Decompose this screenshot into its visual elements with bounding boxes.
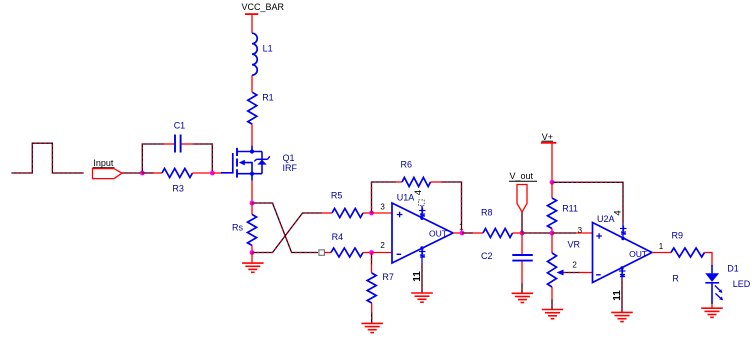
wire V+ down [551, 143, 553, 183]
resistor R11 [548, 198, 557, 228]
wire feedback left leg [372, 182, 397, 213]
wire R7 bottom dark [371, 312, 373, 323]
svg-text:1: 1 [459, 223, 464, 232]
svg-text:R8: R8 [481, 207, 493, 217]
wire red stub R5 left [322, 212, 332, 214]
ground below VR [542, 309, 563, 311]
wire red stub R4 left [325, 252, 332, 254]
svg-text:D1: D1 [727, 263, 739, 273]
wire V+ to U2A pin4 [552, 182, 623, 224]
op-amp U2A minus input marker [596, 274, 601, 276]
resistor R1 [248, 92, 257, 124]
resistor R7 [367, 273, 376, 303]
svg-text:C1: C1 [174, 120, 186, 130]
wire red stub R8 left [473, 232, 483, 234]
wire pin3 stub U2A dark [552, 232, 576, 234]
square terminal on R4 input [319, 250, 325, 256]
wire red stub R3 right [193, 172, 213, 174]
input pulse stimulus waveform [11, 143, 83, 173]
node junction pin2 U1A / R7 [369, 250, 374, 255]
wire red stub C1 left [164, 143, 174, 145]
wire feedback right leg [441, 182, 462, 225]
wire pin3 stub U2A red [576, 232, 593, 234]
svg-text:4: 4 [613, 210, 624, 215]
transistor Q1 drain lead [237, 151, 262, 153]
wire red stub R8 right [513, 232, 523, 234]
wire R7 bottom red [371, 303, 373, 312]
probe V_out symbol [517, 185, 527, 213]
wire output node dark [462, 232, 473, 234]
svg-text:R5: R5 [331, 191, 343, 201]
node junction R11 bottom / VR top [550, 231, 555, 236]
wire pin 3 stub U1A [372, 212, 393, 214]
node junction pin3 U1A [369, 211, 374, 216]
power pin stub U2A pin11 [620, 266, 623, 269]
power pin stub U1A pin4 [421, 206, 423, 219]
svg-text:V_out: V_out [510, 171, 534, 181]
wire C2 bottom dark [521, 283, 523, 293]
wire Rs bottom to ground [251, 253, 253, 264]
wire cross upper (source node to R4 input square) [252, 203, 318, 253]
svg-text:11: 11 [612, 290, 623, 301]
op-amp U2A triangle [593, 223, 653, 283]
diode D1 cathode lead [711, 283, 713, 304]
svg-text:LED: LED [733, 279, 751, 289]
transistor Q1 body arrow [239, 160, 245, 166]
op-amp U1A plus input marker [397, 214, 403, 216]
wire D1 to ground [711, 304, 713, 308]
svg-text:3: 3 [578, 226, 583, 235]
resistor R4 [331, 248, 363, 257]
svg-text:OUT: OUT [429, 229, 447, 239]
transistor Q1 body diode [261, 152, 263, 174]
diode D1 LED anode lead [711, 265, 713, 273]
resistor Rs [248, 214, 257, 245]
ground below Rs [242, 262, 264, 264]
svg-text:VCC_BAR: VCC_BAR [242, 2, 285, 12]
svg-text:4: 4 [413, 190, 424, 195]
svg-text:IRF: IRF [283, 163, 298, 173]
node junction V+ / R11 [550, 180, 555, 185]
diode D1 LED emission arrows [715, 286, 722, 293]
wire red stub C1 right [181, 143, 193, 145]
svg-text:R3: R3 [172, 184, 184, 194]
wire R3 left dark [142, 172, 154, 174]
svg-text:V+: V+ [542, 132, 553, 142]
svg-text:1: 1 [659, 242, 664, 251]
wire node to VR node [522, 232, 552, 234]
wire Input to node [122, 172, 142, 174]
node junction Rs bottom [250, 250, 255, 255]
wire C2 bottom red [521, 262, 523, 284]
svg-text:C2: C2 [481, 251, 493, 261]
op-amp U2A plus input marker [596, 235, 602, 237]
wire red stub R6 right [431, 181, 442, 183]
svg-text:OUT: OUT [629, 249, 647, 259]
resistor R5 [332, 209, 363, 218]
wire red stub R3 left [154, 172, 162, 174]
node junction Q1 source / Rs top [250, 201, 255, 206]
svg-text:R7: R7 [382, 272, 394, 282]
wire red stub VR top [551, 233, 553, 253]
svg-text:R1: R1 [262, 92, 274, 102]
wire R7 top red [371, 265, 373, 274]
svg-text:Input: Input [93, 158, 114, 168]
wire U1A output to node [453, 232, 462, 234]
wire U2A output red [652, 252, 671, 254]
svg-text:L1: L1 [263, 43, 273, 53]
wire pin 2 stub U1A [372, 252, 393, 254]
svg-text:R11: R11 [562, 203, 578, 213]
svg-text:R: R [672, 273, 679, 283]
svg-text:2: 2 [572, 261, 577, 270]
svg-text:11: 11 [412, 271, 423, 282]
ground below U2A pin 11 [611, 311, 633, 313]
wire R1 to Q1 drain [251, 124, 253, 146]
transistor Q1 gate lead [221, 153, 233, 173]
port Input symbol [93, 169, 123, 179]
wire R9 to D1 [705, 253, 713, 267]
transistor Q1 channel segments [236, 148, 238, 156]
wire VR wiper dark [564, 272, 581, 274]
node junction at R3 right / gate [210, 171, 215, 176]
wire C1 branch left/top [142, 144, 164, 173]
ground below D1 [701, 307, 723, 309]
node junction U1A output [460, 231, 465, 236]
wire red stub R11 top [551, 182, 553, 198]
resistor R3 [162, 169, 192, 178]
svg-text:R9: R9 [672, 230, 684, 240]
wire red stub Rs top [251, 203, 253, 214]
wire red gate stub [212, 172, 221, 174]
power pin stub U2A pin4 [622, 224, 624, 239]
wire red into output node [461, 225, 463, 233]
svg-text:Rs: Rs [232, 222, 243, 232]
ground below U1A pin 11 [411, 292, 433, 294]
svg-text:VR: VR [568, 239, 581, 249]
wire red stub Rs bottom [251, 245, 253, 252]
wire U1A pin11 to ground [421, 263, 423, 293]
svg-text:U1A: U1A [397, 193, 415, 203]
wire cross lower (Rs bottom to R5 left) [252, 213, 322, 253]
wire VR bottom dark [551, 299, 553, 310]
op-amp U1A minus input marker [397, 253, 402, 255]
resistor R9 [671, 248, 704, 257]
wire red stub R6 left [396, 181, 402, 183]
transistor Q1 source lead [237, 173, 262, 175]
wire red stub R5 right [363, 212, 372, 214]
op-amp U1A triangle [392, 203, 453, 263]
ground below C2 [512, 292, 533, 294]
power pin stub U1A pin11 [420, 246, 423, 249]
wire L1 to R1 [251, 75, 253, 92]
wire Q1 source to node [251, 181, 253, 204]
transistor Q1 junction dots [250, 149, 254, 153]
wire U2A pin11 to ground [621, 280, 623, 313]
ground below R7 [361, 322, 383, 324]
resistor R8 [483, 229, 513, 238]
potentiometer VR wiper arrow [557, 270, 564, 276]
svg-text:Q1: Q1 [283, 153, 295, 163]
capacitor C1 [174, 135, 176, 153]
node junction R8/C2/V_out [520, 231, 525, 236]
svg-text:R6: R6 [401, 159, 413, 169]
wire VCC_BAR to L1 [251, 14, 253, 33]
node junction at C1/R3 left [140, 171, 145, 176]
wire pin2 stub U2A red [580, 272, 593, 274]
inductor L1 [252, 33, 257, 75]
wire red stub VR bottom [551, 287, 553, 299]
capacitor C2 [512, 254, 533, 256]
wire R7 top dark [371, 254, 373, 265]
potentiometer VR [548, 253, 557, 287]
wire C1 branch right [193, 144, 212, 172]
svg-text:R4: R4 [332, 232, 344, 242]
diode D1 LED triangle [705, 273, 719, 282]
power pin square U1A pin4 [419, 200, 425, 206]
resistor R6 [402, 178, 431, 187]
wire red stub R4 right [363, 252, 372, 254]
wire red stub R11 bottom [551, 229, 553, 234]
wire V_out probe stem [521, 212, 523, 233]
svg-text:2: 2 [380, 241, 385, 250]
wire C2 top red [521, 233, 523, 254]
svg-text:3: 3 [380, 203, 385, 212]
